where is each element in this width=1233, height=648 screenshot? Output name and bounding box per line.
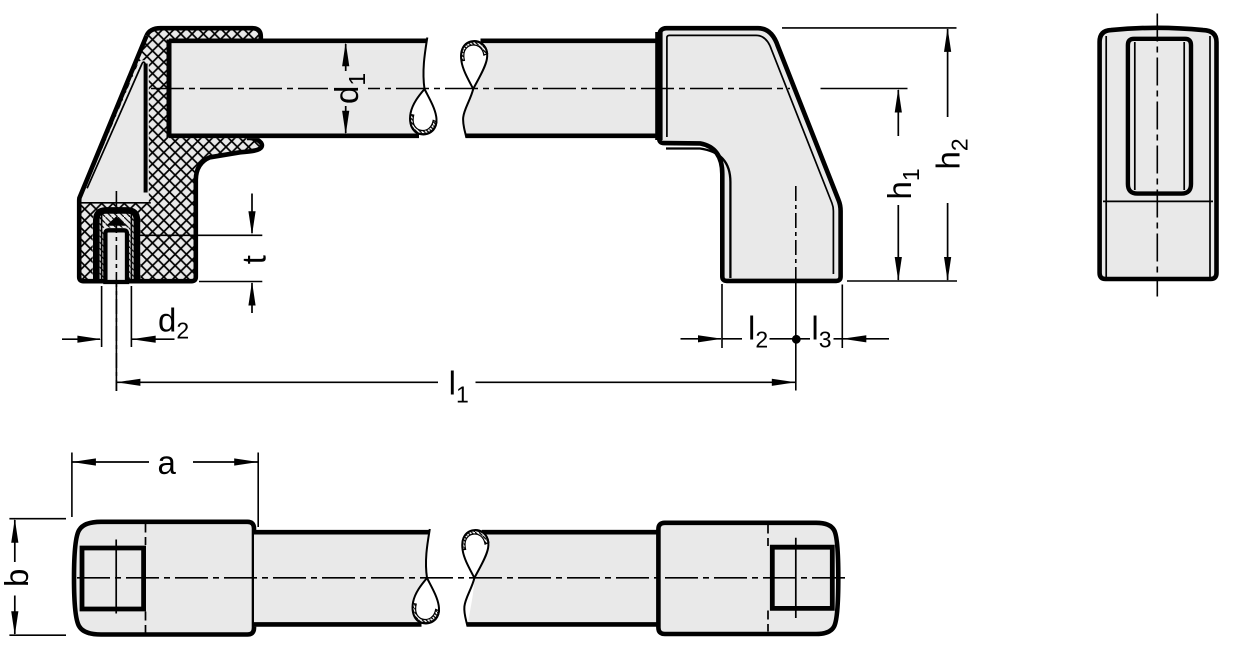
svg-text:a: a (158, 444, 177, 481)
dimension t extension lines (135, 235, 263, 281)
right leg notch inner thin line (666, 149, 730, 279)
break hatched crescent (410, 115, 437, 135)
dimension b extension lines (9, 519, 66, 636)
bottom view: right hidden dashes (767, 525, 769, 632)
tube break right (upper view) (461, 41, 488, 138)
dimension d1 arrows (345, 44, 347, 71)
end view fill (1100, 28, 1217, 279)
break S-line right (463, 89, 473, 138)
tube right piece fill (463, 39, 658, 138)
dimension a line + arrows (72, 461, 258, 463)
left leg outer contour top band (147, 28, 261, 41)
bottom view: tube left piece fill (254, 530, 430, 627)
cavity thin slant line (87, 62, 145, 188)
thread crest thin lines (102, 214, 132, 282)
left hole centerline (115, 191, 117, 391)
bottom view: right cap fill+outline (658, 523, 838, 634)
right leg socket face thick edge (655, 32, 662, 140)
break S-line bottom right (464, 578, 474, 626)
tube bottom edge left (169, 134, 419, 139)
gray mask behind d1 label (328, 71, 368, 105)
h extension lines (782, 28, 957, 281)
break teardrop loop (413, 578, 439, 623)
right hole centerline (795, 186, 797, 281)
svg-text:b: b (0, 569, 35, 587)
svg-text:t: t (236, 255, 273, 264)
bottom view: left cap fill+outline (74, 522, 254, 635)
dimension b line + arrows (14, 520, 16, 562)
end view parting thin line (1103, 200, 1213, 202)
break teardrop loop (410, 89, 436, 134)
right hole centerline extension (795, 281, 797, 391)
break hatched crescent (462, 530, 489, 550)
bottom view: left hidden dashes (145, 524, 147, 633)
left leg section fill (gray body) (79, 28, 262, 281)
tube left piece fill (169, 39, 427, 139)
drill point triangle (106, 216, 126, 226)
end view recess inner thin lines (1135, 42, 1184, 190)
dimension h1 arrows (897, 90, 899, 136)
base top thin line (80, 202, 151, 204)
break S-line left (423, 38, 427, 90)
bottom view: left hole vertical line (115, 540, 117, 614)
end view inner highlight lines (1106, 36, 1210, 277)
insert hatch strips (100, 213, 134, 228)
screw hole capsule (105, 230, 127, 282)
bottom view: tube right piece fill (468, 530, 659, 626)
tube end line (167, 40, 172, 138)
break S-line bottom left (426, 529, 430, 578)
bottom view: left square hole (82, 548, 144, 609)
dimension a extension lines (72, 453, 258, 528)
left leg outer contour (slant, base, neck, lip) (79, 36, 262, 282)
dimension d2 arrows (62, 338, 100, 340)
dimension l2/l3 line + arrows + dot (681, 338, 722, 340)
break teardrop loop (462, 530, 488, 578)
bottom view break left (413, 529, 440, 624)
tube top edge left (169, 38, 427, 43)
bottom view: right hole vertical line (795, 538, 797, 618)
end view recess outline (1128, 39, 1191, 194)
dimension l1 line + arrows (116, 381, 795, 383)
dimension h2 arrows (947, 29, 949, 117)
right leg fill (659, 28, 840, 281)
bottom view break right (462, 530, 489, 627)
cavity right thick line (144, 64, 148, 193)
tube centerline (upper view) (151, 88, 790, 90)
bottom view centerline (77, 577, 845, 579)
left leg cross-hatch area (with cavity + pocket window holes) (79, 28, 262, 281)
dimension l2/l3 extension lines (722, 284, 842, 348)
dimension d2 extension lines (102, 286, 132, 347)
threaded insert pocket outline (96, 210, 137, 283)
right leg outer contour (659, 28, 840, 281)
break hatched crescent (413, 604, 440, 624)
tube top edge right (481, 38, 659, 43)
break hatched crescent (461, 41, 488, 61)
bottom view: right square hole (772, 547, 832, 608)
bottom view: tube left edges (254, 530, 429, 535)
bottom view: tube right edges (482, 530, 659, 535)
tube bottom edge right (466, 134, 659, 139)
right leg inner thin line (667, 35, 834, 274)
break teardrop loop (461, 41, 487, 89)
tube break left (upper view) (410, 38, 437, 135)
end view vertical centerline (1156, 14, 1158, 297)
dimension t arrows (251, 194, 253, 234)
